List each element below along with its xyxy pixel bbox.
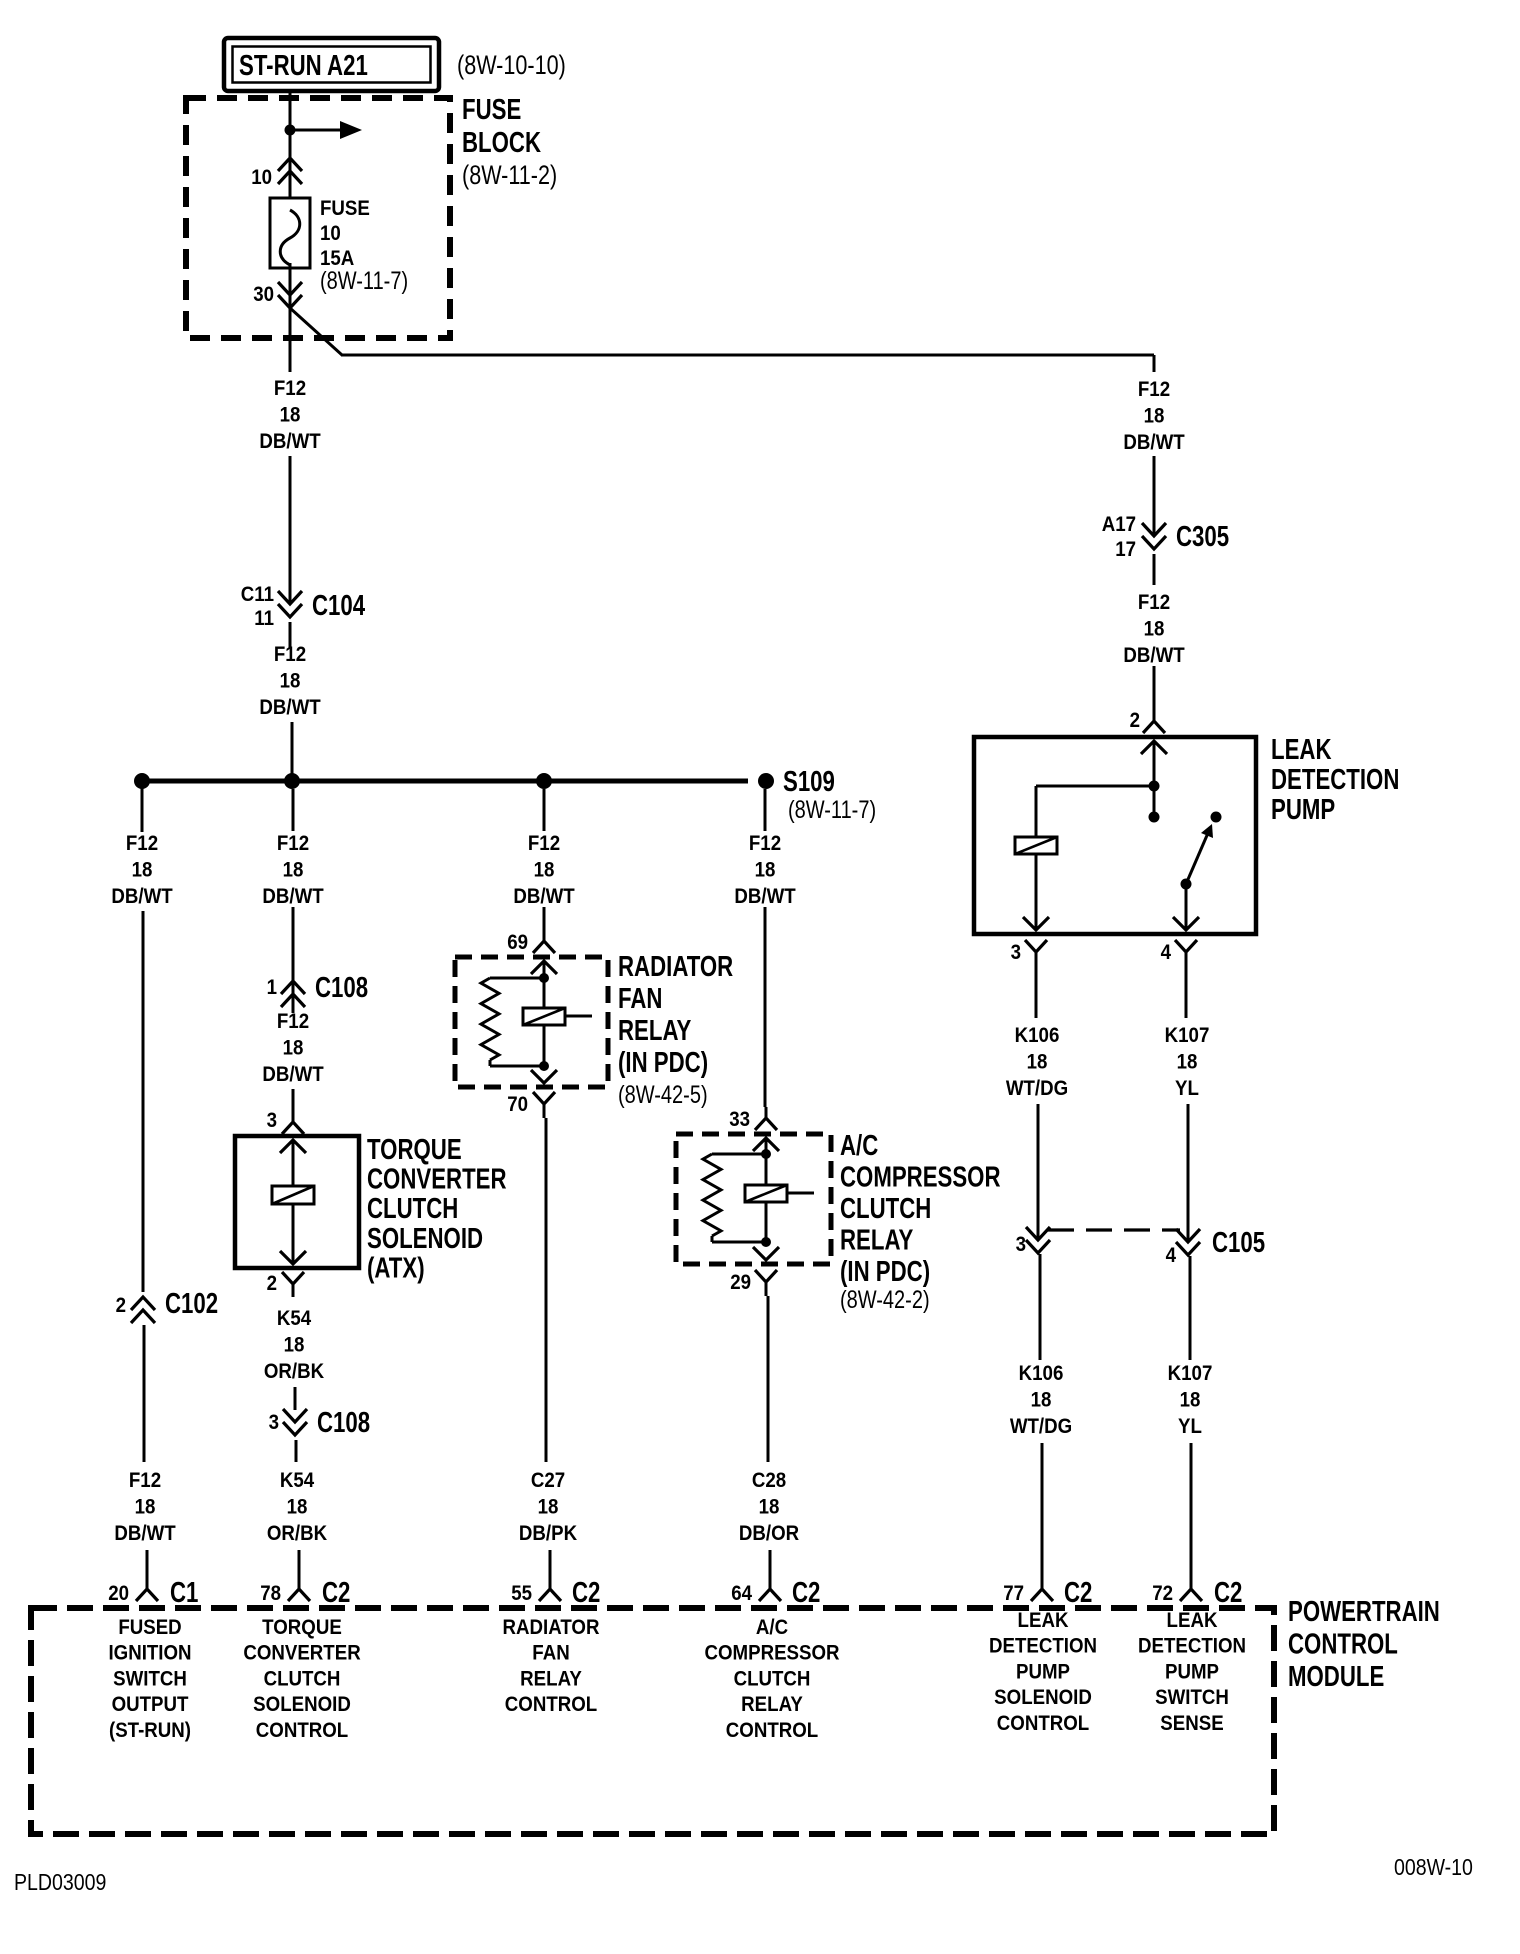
svg-text:DB/WT: DB/WT xyxy=(259,430,321,453)
wire below C104 xyxy=(289,622,292,648)
svg-text:LEAK: LEAK xyxy=(1167,1609,1218,1632)
LDP pin 4 fork terminal xyxy=(1175,940,1197,952)
LDP pin 3 fork terminal xyxy=(1025,940,1047,952)
connector chevrons pin 10 xyxy=(278,158,302,171)
svg-text:18: 18 xyxy=(1180,1388,1201,1411)
svg-text:(IN PDC): (IN PDC) xyxy=(618,1047,708,1078)
leak detection pump pin 2 fork terminal xyxy=(1153,711,1156,721)
svg-text:BLOCK: BLOCK xyxy=(462,127,541,158)
wire branch 3 below splice xyxy=(543,789,546,831)
svg-text:K54: K54 xyxy=(277,1307,312,1330)
svg-text:DB/WT: DB/WT xyxy=(114,1522,176,1545)
svg-text:TORQUE: TORQUE xyxy=(367,1134,462,1165)
svg-text:18: 18 xyxy=(283,858,304,881)
svg-text:C305: C305 xyxy=(1176,521,1229,552)
svg-text:3: 3 xyxy=(267,1109,277,1132)
svg-text:C2: C2 xyxy=(572,1577,600,1608)
svg-text:(ATX): (ATX) xyxy=(367,1253,425,1284)
svg-text:TORQUE: TORQUE xyxy=(262,1616,342,1639)
svg-text:78: 78 xyxy=(260,1582,281,1605)
svg-text:K106: K106 xyxy=(1015,1024,1060,1047)
svg-text:72: 72 xyxy=(1152,1582,1173,1605)
svg-text:S109: S109 xyxy=(783,766,835,797)
svg-text:18: 18 xyxy=(283,1036,304,1059)
svg-text:18: 18 xyxy=(280,403,301,426)
svg-text:20: 20 xyxy=(108,1582,129,1605)
svg-text:18: 18 xyxy=(284,1333,305,1356)
svg-text:2: 2 xyxy=(116,1294,126,1317)
wire branch 2 below splice xyxy=(292,789,295,831)
LDP internal bottom chevron pin 4 xyxy=(1173,917,1199,930)
LDP solenoid coil xyxy=(1015,837,1057,854)
svg-text:11: 11 xyxy=(254,607,274,630)
svg-text:CONTROL: CONTROL xyxy=(505,1693,597,1716)
svg-text:(ST-RUN): (ST-RUN) xyxy=(109,1719,191,1742)
svg-text:COMPRESSOR: COMPRESSOR xyxy=(704,1642,839,1665)
splice dot S109 xyxy=(758,773,774,789)
TCC solenoid internal top chevron xyxy=(280,1140,306,1153)
svg-text:64: 64 xyxy=(731,1582,753,1605)
svg-text:A/C: A/C xyxy=(840,1130,878,1161)
connector C105 right chevrons xyxy=(1176,1229,1200,1242)
svg-text:18: 18 xyxy=(538,1495,559,1518)
wire K106 to C105 xyxy=(1037,1104,1040,1239)
svg-text:K106: K106 xyxy=(1019,1362,1064,1385)
svg-text:77: 77 xyxy=(1003,1582,1024,1605)
svg-text:WT/DG: WT/DG xyxy=(1006,1077,1068,1100)
svg-text:SOLENOID: SOLENOID xyxy=(994,1686,1092,1709)
svg-text:MODULE: MODULE xyxy=(1288,1661,1384,1692)
radiator fan relay internal bottom junction dot xyxy=(539,1061,549,1071)
svg-text:(IN PDC): (IN PDC) xyxy=(840,1256,930,1287)
connector chevrons pin 30 xyxy=(278,282,302,295)
A/C relay pin 33 fork terminal xyxy=(765,1107,768,1118)
wire diagonal to right-hand feed xyxy=(290,308,342,355)
svg-text:18: 18 xyxy=(534,858,555,881)
A/C relay internal bottom chevron xyxy=(753,1247,779,1260)
svg-text:DETECTION: DETECTION xyxy=(989,1635,1097,1658)
wire to lower C108 xyxy=(294,1387,297,1410)
wire stub to PCM pin 55 xyxy=(549,1550,552,1576)
LDP internal wire to coil xyxy=(1036,785,1154,788)
svg-text:F12: F12 xyxy=(528,832,560,855)
svg-text:(8W-42-2): (8W-42-2) xyxy=(840,1286,930,1314)
wire below C105 pin 3 xyxy=(1039,1254,1042,1360)
svg-text:18: 18 xyxy=(1144,404,1165,427)
svg-text:FUSE: FUSE xyxy=(320,197,370,220)
wire K106 to PCM pin 77 xyxy=(1041,1443,1044,1576)
svg-text:18: 18 xyxy=(1031,1388,1052,1411)
svg-text:18: 18 xyxy=(759,1495,780,1518)
svg-text:SWITCH: SWITCH xyxy=(113,1667,187,1690)
wire branch 1 below C102 xyxy=(143,1325,146,1462)
svg-text:F12: F12 xyxy=(277,1010,309,1033)
wire branch 1 down to C102 xyxy=(142,911,145,1292)
svg-text:69: 69 xyxy=(507,931,528,954)
svg-text:F12: F12 xyxy=(1138,591,1170,614)
svg-text:FUSE: FUSE xyxy=(462,94,521,125)
svg-text:COMPRESSOR: COMPRESSOR xyxy=(840,1162,1001,1193)
svg-text:RELAY: RELAY xyxy=(520,1667,582,1690)
arrow feed to other circuits xyxy=(290,129,340,132)
svg-text:RADIATOR: RADIATOR xyxy=(618,951,733,982)
svg-text:(8W-11-7): (8W-11-7) xyxy=(788,796,876,824)
wire from ST-RUN A21 into fuse block xyxy=(289,91,292,212)
wire branch 3 long run to PCM xyxy=(545,1118,548,1462)
svg-text:FUSED: FUSED xyxy=(118,1616,181,1639)
LDP switch arm with arrow xyxy=(1186,833,1208,884)
svg-text:DB/WT: DB/WT xyxy=(1123,431,1185,454)
fuse F10 body xyxy=(270,198,310,268)
svg-text:LEAK: LEAK xyxy=(1018,1609,1069,1632)
svg-text:SENSE: SENSE xyxy=(1160,1712,1223,1735)
svg-text:F12: F12 xyxy=(274,643,306,666)
A/C relay resistor xyxy=(712,1153,766,1156)
svg-text:DB/WT: DB/WT xyxy=(734,885,796,908)
svg-text:PLD03009: PLD03009 xyxy=(14,1870,106,1896)
svg-text:18: 18 xyxy=(755,858,776,881)
wire right feed drop xyxy=(1153,355,1156,372)
connector C108 lower chevrons xyxy=(283,1409,307,1422)
svg-text:18: 18 xyxy=(1144,617,1165,640)
TCC solenoid coil xyxy=(272,1186,314,1204)
svg-text:SOLENOID: SOLENOID xyxy=(367,1223,483,1254)
svg-text:F12: F12 xyxy=(749,832,781,855)
svg-text:C2: C2 xyxy=(1064,1577,1092,1608)
wire branch 2 to C108 xyxy=(292,907,295,1013)
wire branch 1 below splice xyxy=(141,781,144,832)
svg-text:SOLENOID: SOLENOID xyxy=(253,1693,351,1716)
LDP internal junction dot to coil xyxy=(1149,781,1160,792)
wire horizontal feed to leak detection pump branch xyxy=(341,354,1154,357)
svg-text:CONTROL: CONTROL xyxy=(256,1719,348,1742)
connector C105 dashed link xyxy=(1048,1228,1180,1231)
TCC solenoid internal bottom chevron xyxy=(280,1251,306,1264)
radiator fan relay internal top chevron xyxy=(531,961,557,974)
connector C105 left chevrons xyxy=(1026,1227,1050,1240)
radiator fan relay internal bottom chevron xyxy=(531,1070,557,1083)
svg-text:DB/OR: DB/OR xyxy=(739,1522,800,1545)
svg-text:F12: F12 xyxy=(277,832,309,855)
wire below C305 xyxy=(1153,554,1156,585)
leak detection pump box xyxy=(974,737,1256,934)
svg-text:C108: C108 xyxy=(315,972,368,1003)
svg-text:CONTROL: CONTROL xyxy=(1288,1629,1398,1660)
wire branch 4 below splice xyxy=(764,789,767,831)
connector C104 chevrons xyxy=(278,591,302,604)
svg-text:10: 10 xyxy=(251,166,272,189)
powertrain control module dashed box xyxy=(31,1608,1274,1834)
wire stub to PCM pin 64 xyxy=(769,1550,772,1576)
PCM pin 77 fork terminal xyxy=(1041,1576,1044,1589)
svg-text:CLUTCH: CLUTCH xyxy=(840,1193,931,1224)
power feed box ST-RUN A21 xyxy=(224,38,439,91)
svg-text:18: 18 xyxy=(1027,1050,1048,1073)
TCC solenoid internal wire upper xyxy=(292,1140,295,1186)
wire below fuse leaving fuse block xyxy=(289,263,292,372)
PCM pin 72 fork terminal xyxy=(1190,1576,1193,1589)
svg-text:4: 4 xyxy=(1161,941,1172,964)
PCM pin 20 fork terminal xyxy=(146,1576,149,1589)
wire K107 to C105 xyxy=(1187,1104,1190,1241)
svg-text:POWERTRAIN: POWERTRAIN xyxy=(1288,1596,1440,1627)
svg-text:DB/WT: DB/WT xyxy=(1123,644,1185,667)
svg-text:70: 70 xyxy=(507,1093,528,1116)
svg-text:18: 18 xyxy=(132,858,153,881)
svg-text:4: 4 xyxy=(1166,1244,1177,1267)
svg-text:WT/DG: WT/DG xyxy=(1010,1415,1072,1438)
svg-text:OR/BK: OR/BK xyxy=(264,1360,325,1383)
svg-text:C108: C108 xyxy=(317,1407,370,1438)
svg-text:1: 1 xyxy=(267,976,277,999)
svg-text:PUMP: PUMP xyxy=(1165,1660,1219,1683)
LDP switch feed contact dot xyxy=(1149,812,1160,823)
svg-text:C11: C11 xyxy=(241,583,274,606)
svg-text:C1: C1 xyxy=(170,1577,198,1608)
svg-text:CLUTCH: CLUTCH xyxy=(264,1667,341,1690)
LDP switch upper contact dot xyxy=(1211,812,1222,823)
svg-text:CLUTCH: CLUTCH xyxy=(367,1194,458,1225)
svg-text:CONTROL: CONTROL xyxy=(726,1719,818,1742)
svg-text:2: 2 xyxy=(267,1272,277,1295)
svg-text:18: 18 xyxy=(1177,1050,1198,1073)
svg-text:DB/PK: DB/PK xyxy=(519,1522,578,1545)
wire branch 4 to A/C compressor clutch relay xyxy=(764,907,767,1107)
wire K107 to PCM pin 72 xyxy=(1190,1443,1193,1576)
svg-text:C102: C102 xyxy=(165,1288,218,1319)
svg-text:C105: C105 xyxy=(1212,1227,1265,1258)
A/C relay internal top chevron xyxy=(753,1138,779,1151)
A/C compressor clutch relay dashed box xyxy=(676,1134,831,1264)
svg-text:DETECTION: DETECTION xyxy=(1138,1635,1246,1658)
TCC solenoid pin 3 fork terminal xyxy=(292,1112,295,1122)
svg-text:C2: C2 xyxy=(322,1577,350,1608)
svg-text:F12: F12 xyxy=(1138,378,1170,401)
svg-text:RELAY: RELAY xyxy=(618,1015,691,1046)
PCM pin 78 fork terminal xyxy=(298,1576,301,1589)
svg-text:2: 2 xyxy=(1130,709,1140,732)
svg-text:DETECTION: DETECTION xyxy=(1271,764,1399,795)
TCC solenoid internal wire lower xyxy=(292,1204,295,1264)
A/C relay internal wire xyxy=(765,1138,768,1242)
svg-text:K54: K54 xyxy=(280,1469,315,1492)
svg-text:F12: F12 xyxy=(129,1469,161,1492)
svg-text:CONTROL: CONTROL xyxy=(997,1712,1089,1735)
TCC solenoid pin 2 fork terminal xyxy=(282,1272,304,1284)
svg-text:C104: C104 xyxy=(312,590,366,621)
svg-text:55: 55 xyxy=(511,1582,532,1605)
radiator fan relay coil lead xyxy=(565,1015,592,1018)
svg-text:DB/WT: DB/WT xyxy=(513,885,575,908)
svg-text:FAN: FAN xyxy=(532,1642,569,1665)
svg-text:ST-RUN A21: ST-RUN A21 xyxy=(239,50,368,81)
radiator fan relay dashed box xyxy=(455,957,608,1087)
wire to connector C305 xyxy=(1153,456,1156,535)
svg-text:(8W-42-5): (8W-42-5) xyxy=(618,1081,708,1109)
svg-text:DB/WT: DB/WT xyxy=(262,1063,324,1086)
svg-text:RELAY: RELAY xyxy=(840,1225,913,1256)
svg-text:FAN: FAN xyxy=(618,983,662,1014)
svg-text:PUMP: PUMP xyxy=(1271,794,1335,825)
A/C relay coil xyxy=(745,1185,787,1202)
connector C108 top chevrons xyxy=(281,981,305,994)
junction dot in fuse block xyxy=(285,125,296,136)
A/C relay coil lead xyxy=(787,1192,814,1195)
svg-text:PUMP: PUMP xyxy=(1016,1660,1070,1683)
wire branch 4 to PCM xyxy=(767,1296,770,1462)
svg-text:YL: YL xyxy=(1175,1077,1199,1100)
svg-text:C27: C27 xyxy=(531,1469,565,1492)
svg-text:F12: F12 xyxy=(274,377,306,400)
svg-text:18: 18 xyxy=(287,1495,308,1518)
wire from label to splice bus xyxy=(291,722,294,781)
svg-text:DB/WT: DB/WT xyxy=(111,885,173,908)
splice dot branch 3 xyxy=(536,773,552,789)
wire branch 3 to radiator fan relay xyxy=(543,907,546,930)
PCM pin 55 fork terminal xyxy=(549,1576,552,1589)
svg-text:DB/WT: DB/WT xyxy=(262,885,324,908)
wire stub to PCM pin 20 xyxy=(146,1550,149,1576)
splice dot branch 1 xyxy=(134,773,150,789)
LDP internal bottom chevron pin 3 xyxy=(1023,917,1049,930)
LDP internal feed wire xyxy=(1153,741,1156,817)
svg-text:10: 10 xyxy=(320,222,341,245)
radiator fan relay resistor xyxy=(490,977,544,980)
A/C relay pin 29 fork terminal xyxy=(755,1270,777,1282)
connector C102 chevrons xyxy=(131,1297,155,1310)
svg-text:LEAK: LEAK xyxy=(1271,734,1332,765)
svg-text:K107: K107 xyxy=(1168,1362,1213,1385)
radiator fan relay internal top junction dot xyxy=(539,973,549,983)
svg-text:DB/WT: DB/WT xyxy=(259,696,321,719)
svg-text:C2: C2 xyxy=(792,1577,820,1608)
svg-text:IGNITION: IGNITION xyxy=(108,1642,191,1665)
A/C relay internal bottom junction dot xyxy=(761,1237,771,1247)
splice S109 bus xyxy=(142,779,748,784)
svg-text:3: 3 xyxy=(1011,941,1021,964)
svg-text:33: 33 xyxy=(729,1108,750,1131)
svg-text:3: 3 xyxy=(1016,1233,1026,1256)
LDP internal top chevron xyxy=(1141,741,1167,754)
svg-text:SWITCH: SWITCH xyxy=(1155,1686,1229,1709)
svg-text:CLUTCH: CLUTCH xyxy=(734,1667,811,1690)
svg-text:(8W-11-7): (8W-11-7) xyxy=(320,267,408,295)
svg-text:F12: F12 xyxy=(126,832,158,855)
wire stub to PCM pin 78 xyxy=(298,1550,301,1576)
A/C relay internal top junction dot xyxy=(761,1149,771,1159)
PCM pin 64 fork terminal xyxy=(769,1576,772,1589)
splice dot branch 2 xyxy=(284,773,300,789)
fuse block dashed enclosure xyxy=(186,98,450,338)
svg-text:A/C: A/C xyxy=(756,1616,788,1639)
svg-text:K107: K107 xyxy=(1165,1024,1210,1047)
svg-text:OR/BK: OR/BK xyxy=(267,1522,328,1545)
radiator fan relay pin 70 fork terminal xyxy=(533,1092,555,1104)
torque converter clutch solenoid box xyxy=(235,1136,359,1268)
svg-text:CONVERTER: CONVERTER xyxy=(367,1164,507,1195)
svg-text:30: 30 xyxy=(253,283,274,306)
svg-text:29: 29 xyxy=(730,1271,751,1294)
LDP switch wire to pin 4 xyxy=(1185,884,1188,930)
LDP switch pivot dot xyxy=(1181,879,1192,890)
connector C305 chevrons xyxy=(1142,523,1166,536)
svg-text:008W-10: 008W-10 xyxy=(1394,1855,1473,1881)
radiator fan relay internal wire xyxy=(543,961,546,1066)
wire into torque converter solenoid xyxy=(292,1089,295,1112)
wire below C105 pin 4 xyxy=(1189,1256,1192,1360)
radiator fan relay coil xyxy=(523,1008,565,1025)
LDP coil wire to pin 3 xyxy=(1035,854,1038,930)
radiator fan relay pin 69 fork terminal xyxy=(543,930,546,941)
svg-text:(8W-11-2): (8W-11-2) xyxy=(462,161,557,191)
svg-text:YL: YL xyxy=(1178,1415,1202,1438)
wire to connector C104 xyxy=(289,456,292,602)
svg-text:RELAY: RELAY xyxy=(741,1693,803,1716)
svg-text:3: 3 xyxy=(269,1411,279,1434)
svg-text:C2: C2 xyxy=(1214,1577,1242,1608)
svg-text:CONVERTER: CONVERTER xyxy=(243,1642,361,1665)
svg-text:17: 17 xyxy=(1115,538,1136,561)
svg-text:OUTPUT: OUTPUT xyxy=(112,1693,190,1716)
svg-text:C28: C28 xyxy=(752,1469,786,1492)
svg-text:RADIATOR: RADIATOR xyxy=(503,1616,600,1639)
svg-text:A17: A17 xyxy=(1102,513,1136,536)
wire into leak detection pump xyxy=(1153,666,1156,711)
svg-text:18: 18 xyxy=(135,1495,156,1518)
svg-text:(8W-10-10): (8W-10-10) xyxy=(457,51,566,81)
wire below lower C108 xyxy=(295,1440,298,1462)
svg-text:18: 18 xyxy=(280,669,301,692)
